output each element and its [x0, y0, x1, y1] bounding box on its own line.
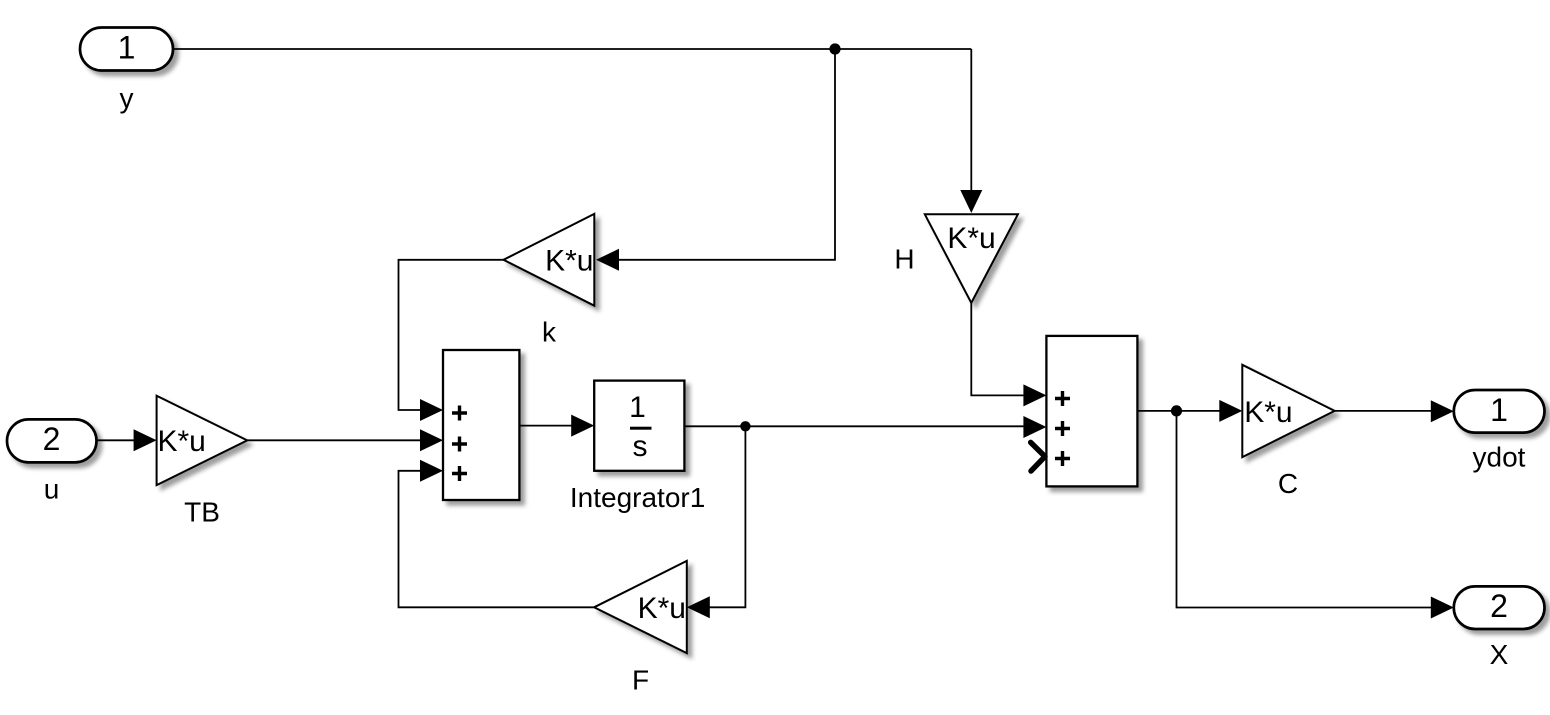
- outport 2: [1454, 586, 1545, 629]
- label F: [632, 665, 649, 696]
- value K*u of gain k: [545, 244, 593, 277]
- gain H: [925, 214, 1018, 302]
- svg-text:K*u: K*u: [545, 244, 593, 277]
- svg-text:1: 1: [118, 30, 136, 66]
- arrowhead into gain H: [960, 190, 982, 213]
- svg-text:Integrator1: Integrator1: [570, 482, 705, 513]
- svg-text:F: F: [632, 665, 649, 696]
- wire Inport2 u to gain TB: [96, 439, 134, 441]
- node junction after Integrator1: [740, 421, 750, 431]
- svg-text:s: s: [633, 430, 648, 463]
- pin number 1 of outport 1: [1490, 392, 1508, 428]
- wire Sum1 output to Integrator1: [519, 425, 572, 427]
- arrowhead into gain TB: [134, 429, 157, 451]
- node junction after Sum2: [1171, 405, 1182, 416]
- sum block Sum2: [1046, 336, 1137, 487]
- svg-text:ydot: ydot: [1473, 442, 1526, 473]
- value K*u of gain F: [638, 592, 686, 625]
- label u: [44, 474, 60, 505]
- label y: [120, 83, 134, 114]
- value K*u of gain C: [1244, 396, 1292, 429]
- gain k: [504, 214, 595, 306]
- gain F: [594, 561, 687, 653]
- arrowhead into gain k: [596, 249, 619, 271]
- svg-text:1: 1: [629, 391, 646, 424]
- svg-text:X: X: [1490, 639, 1509, 670]
- fraction bar of Integrator1: [630, 427, 652, 430]
- wire gain C output to Outport1 ydot: [1335, 410, 1431, 412]
- arrowhead into Sum1 input 1: [420, 399, 443, 421]
- pin number 2 of inport 2: [43, 421, 61, 457]
- arrowhead into Sum1 input 3: [420, 460, 443, 482]
- arrowhead into Integrator1: [571, 415, 594, 437]
- svg-text:H: H: [894, 244, 914, 275]
- arrowhead into Sum2 input 2: [1023, 416, 1046, 438]
- wire Integrator1 output to Sum2 input 2: [684, 425, 1024, 427]
- wire gain k output to Sum1 input 1: [399, 260, 504, 410]
- label TB: [184, 497, 220, 528]
- sum block Sum1: [443, 350, 519, 500]
- svg-text:u: u: [44, 474, 60, 505]
- label Integrator1: [570, 482, 705, 513]
- unconnected port chevron on Sum2 input 3: [1031, 442, 1045, 471]
- plus sign input 1 of Sum2: [1055, 391, 1070, 406]
- plus sign input 3 of Sum2: [1055, 451, 1070, 466]
- label k: [542, 317, 557, 348]
- pin number 1 of inport 1: [118, 30, 136, 66]
- svg-text:k: k: [542, 317, 557, 348]
- svg-text:2: 2: [43, 421, 61, 457]
- pin number 2 of outport 2: [1490, 588, 1508, 624]
- arrowhead into Outport2: [1431, 597, 1454, 619]
- value K*u of gain H: [947, 222, 995, 255]
- svg-text:y: y: [120, 83, 134, 114]
- wire gain TB output to Sum1 input 2: [247, 439, 420, 441]
- wire gain F output up to Sum1 input 3: [399, 471, 595, 608]
- integrator block Integrator1: [594, 381, 684, 471]
- outport 1: [1454, 390, 1545, 433]
- svg-text:K*u: K*u: [158, 425, 206, 458]
- wire junction down and left into gain F: [709, 426, 745, 607]
- wire y out of Inport1 to branch: [173, 48, 971, 50]
- svg-text:2: 2: [1490, 588, 1508, 624]
- arrowhead into Sum1 input 2: [420, 429, 443, 451]
- svg-text:C: C: [1278, 468, 1298, 499]
- arrowhead into gain C: [1219, 400, 1242, 422]
- value K*u of gain TB: [158, 425, 206, 458]
- label ydot: [1473, 442, 1526, 473]
- svg-text:K*u: K*u: [1244, 396, 1292, 429]
- gain C: [1242, 365, 1334, 457]
- wire branch from junction down and left into gain k: [618, 49, 835, 260]
- inport 1: [80, 28, 173, 71]
- plus sign input 3 of Sum1: [452, 466, 467, 481]
- label X: [1490, 639, 1509, 670]
- plus sign input 2 of Sum2: [1055, 421, 1070, 436]
- wire branch down into gain H: [970, 49, 972, 191]
- inport 2: [7, 419, 97, 462]
- denominator s of Integrator1: [633, 430, 648, 463]
- plus sign input 1 of Sum1: [452, 406, 467, 421]
- wire Sum2 output to gain C: [1137, 410, 1220, 412]
- numerator 1 of Integrator1: [629, 391, 646, 424]
- svg-text:K*u: K*u: [947, 222, 995, 255]
- wire junction down and right to Outport2 X: [1177, 411, 1432, 608]
- plus sign input 2 of Sum1: [452, 437, 467, 452]
- arrowhead into gain F: [687, 596, 710, 618]
- arrowhead into Outport1: [1431, 400, 1454, 422]
- svg-text:K*u: K*u: [638, 592, 686, 625]
- label H: [894, 244, 914, 275]
- wire gain H output to Sum2 input 1: [971, 303, 1024, 396]
- arrowhead into Sum2 input 1: [1023, 384, 1046, 406]
- label C: [1278, 468, 1298, 499]
- gain TB: [157, 396, 248, 485]
- svg-text:TB: TB: [184, 497, 220, 528]
- svg-text:1: 1: [1490, 392, 1508, 428]
- node junction on y wire: [829, 43, 840, 54]
